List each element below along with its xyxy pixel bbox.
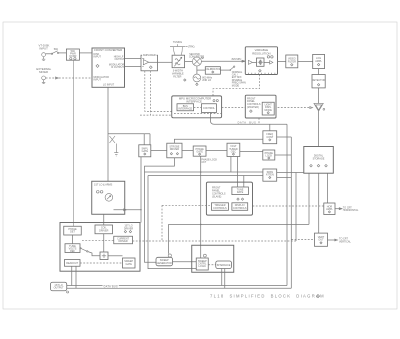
- svg-text:FILTER: FILTER: [173, 76, 181, 79]
- DIGITAL STORAGE box: [304, 147, 334, 174]
- dashed wire front panel to vert amp: [278, 107, 313, 109]
- FIRST CONVERTER U1: [92, 48, 125, 87]
- dashed wire var res bottom to interface: [213, 75, 260, 96]
- VARIABLE RESOLUTION box: [245, 47, 277, 75]
- vertical amp triangle U2: [314, 103, 325, 111]
- mixer M1: [192, 57, 203, 66]
- wire divider down to 1st LO driver: [73, 60, 75, 226]
- wire D to phase lock box F: [240, 151, 263, 153]
- wire osc D bottom to line y172: [230, 157, 232, 173]
- label cal mode list: [232, 71, 246, 88]
- svg-text:INTERFACE: INTERFACE: [217, 264, 231, 267]
- dashed wire display controls to horiz ampl: [253, 205, 324, 207]
- sweep gate box: [123, 258, 136, 268]
- svg-text:TUNING: TUNING: [173, 41, 182, 44]
- wire mixer to variable resolution, 829 MHz: [201, 58, 245, 62]
- svg-text:INPUT: INPUT: [94, 56, 102, 59]
- wire calibrator to cal switch: [220, 66, 235, 71]
- dashed wire to trigger controls: [162, 204, 212, 206]
- svg-text:50Ω: 50Ω: [54, 48, 59, 51]
- switch S1 50 ohm: [46, 48, 67, 54]
- wire filter to mixer: [185, 61, 193, 63]
- svg-text:RATE: RATE: [237, 191, 244, 194]
- phase det box: [64, 226, 82, 235]
- svg-text:LO INPUT: LO INPUT: [103, 84, 115, 87]
- wire phase det to tune volts: [72, 235, 74, 244]
- connector J1 VT-DISK INPUT: [39, 43, 50, 60]
- tuning control symbol: [170, 41, 195, 55]
- wire line y175.5 to tune rate: [243, 176, 245, 188]
- wire coil driver to summing: [103, 234, 105, 252]
- svg-text:CONTROL: CONTROL: [203, 107, 216, 110]
- sweep control outer box: [192, 245, 234, 272]
- svg-text:VERTICAL: VERTICAL: [339, 241, 352, 244]
- span atten box G: [263, 169, 277, 181]
- filter FL1 3-width: [172, 55, 186, 81]
- svg-text:CALIBRATOR: CALIBRATOR: [205, 68, 221, 71]
- bus vertical V1: [286, 124, 288, 285]
- arrow to CRT vertical: [328, 238, 352, 244]
- svg-text:DETECTOR: DETECTOR: [312, 79, 326, 82]
- dashed wire bus to vert out: [291, 239, 314, 241]
- DATA BUS wire from interface: [211, 113, 288, 125]
- svg-text:829 MHz: 829 MHz: [232, 58, 243, 61]
- wire box F right to bus vertical: [275, 154, 292, 156]
- svg-text:INTERFACE: INTERFACE: [178, 108, 192, 111]
- log ampl box: [313, 54, 325, 68]
- svg-text:MODE: MODE: [232, 84, 240, 87]
- oscillator 2nd LO: [193, 74, 213, 86]
- wire bus stub to box E top: [269, 124, 271, 131]
- data bus bottom line lower: [67, 287, 292, 289]
- svg-text:7L18 SIMPLIFIED BLOCK DIAGR: 7L18 SIMPLIFIED BLOCK DIAGRAM: [210, 294, 325, 299]
- wire amplifier to filter: [158, 61, 173, 63]
- svg-text:DATA BUS: DATA BUS: [104, 285, 118, 288]
- svg-text:MODE: MODE: [265, 109, 273, 112]
- vert out box: [315, 233, 328, 246]
- coupler X on LO line: [108, 134, 150, 156]
- FRONT PANEL CONTROLS (SLAVE) box: [206, 182, 252, 215]
- readout box: [65, 260, 81, 267]
- wire digital storage to horiz ampl: [327, 173, 329, 203]
- dashed wire x162 vertical: [161, 205, 163, 241]
- svg-text:REF: REF: [70, 250, 75, 253]
- svg-text:(TRK): (TRK): [188, 45, 195, 48]
- wire row C-D: [206, 150, 227, 152]
- sampling gate box A: [139, 145, 151, 157]
- bus vertical V2: [290, 137, 292, 288]
- wire strobe B bottom L-path down: [145, 158, 175, 262]
- wire box G right to digital storage: [277, 172, 304, 174]
- wire row B-C: [182, 150, 193, 152]
- wire sweep gen to sweep logic: [173, 261, 197, 263]
- dashed wire interface to front panel master: [222, 107, 246, 109]
- FRONT PANEL CONTROLS (MASTER) box: [245, 95, 276, 118]
- svg-text:DATA BUS: DATA BUS: [238, 121, 257, 124]
- wire mixer down to 2nd LO osc: [196, 66, 198, 74]
- phase lock box F: [263, 150, 275, 160]
- volt tuned osc box D: [227, 143, 240, 156]
- AMPLIFIER box: [141, 54, 158, 71]
- svg-text:CONT: CONT: [266, 136, 273, 139]
- svg-text:DET: DET: [70, 231, 75, 234]
- 1st LO output connector box: [51, 282, 69, 293]
- svg-text:GATE: GATE: [125, 263, 132, 266]
- video filter box: [286, 55, 298, 68]
- 1ST LO AND ARMS box: [92, 181, 125, 214]
- wire box G right to bus vertical: [277, 177, 292, 179]
- phase gate box C: [193, 146, 206, 156]
- data bus bottom line upper: [67, 285, 287, 287]
- arrow to CRT horizontal: [335, 206, 359, 212]
- wire arms box to sweep vertical: [114, 209, 142, 211]
- svg-text:IF OUTPUT: IF OUTPUT: [111, 66, 124, 69]
- svg-text:AMPL: AMPL: [326, 208, 333, 211]
- wire vert amp to digital storage: [318, 111, 320, 146]
- svg-text:AMPL: AMPL: [315, 60, 322, 63]
- detector box: [312, 75, 326, 88]
- svg-text:CKT: CKT: [201, 161, 206, 164]
- coil driver box: [95, 225, 113, 234]
- wire horiz line y175.5: [148, 176, 263, 269]
- wire LO input down: [107, 87, 109, 181]
- wire phase gate C down to sweep logic: [200, 156, 202, 258]
- freq count box E: [263, 131, 277, 144]
- dashed wire ext mixer to converter: [46, 77, 92, 79]
- svg-text:2ND LO: 2ND LO: [202, 79, 211, 82]
- dashed wire master to data bus: [258, 118, 260, 124]
- svg-text:OUTPUT: OUTPUT: [54, 287, 65, 290]
- wire video filter to log ampl: [298, 61, 313, 63]
- wire var res to video filter: [278, 61, 286, 63]
- dashed wire amplifier to interface (2): [140, 71, 172, 115]
- switch tune volts to summing: [80, 248, 100, 256]
- svg-text:LOGIC: LOGIC: [198, 265, 206, 268]
- data bus bottom label: [103, 285, 120, 288]
- svg-text:1ST LO & ARMS: 1ST LO & ARMS: [94, 183, 113, 186]
- dashed wire logic to interface: [208, 264, 216, 266]
- svg-text:FILTER: FILTER: [288, 60, 296, 63]
- bus vertical V3: [295, 173, 297, 242]
- wire log ampl to detector: [318, 69, 320, 75]
- svg-text:DRIVER: DRIVER: [99, 229, 108, 232]
- current driver box: [114, 236, 133, 244]
- caption 7L18 simplified block diagram: [210, 294, 325, 299]
- wire detector to vert amp triangle: [318, 88, 320, 104]
- svg-text:INPUT: INPUT: [94, 79, 102, 82]
- MICROCOMPUTER INTERFACE box: [172, 96, 222, 118]
- wire osc D bottom to tune rate: [236, 157, 238, 188]
- svg-text:RESOLUTION: RESOLUTION: [252, 51, 270, 55]
- wire arms box down to coil driver: [103, 214, 105, 225]
- wire converter to amplifier (lower): [125, 66, 142, 68]
- sweep generator box: [156, 254, 173, 266]
- summing box: [100, 252, 108, 260]
- svg-text:DRIVER: DRIVER: [118, 240, 127, 243]
- svg-text:MIXER: MIXER: [39, 70, 48, 74]
- wire digital storage to horiz line: [308, 173, 310, 224]
- dashed wire tune volts to current driver: [82, 239, 114, 241]
- dashed wire readout to sweep gate: [80, 262, 123, 264]
- wire sampling gate down to driver box: [140, 157, 142, 223]
- svg-text:DRIVER: DRIVER: [170, 148, 179, 151]
- strobe driver box B: [167, 143, 182, 158]
- svg-text:GATE: GATE: [142, 150, 149, 153]
- 1ST LO DRIVER box: [60, 223, 140, 272]
- svg-text:OUTPUT: OUTPUT: [114, 58, 125, 61]
- wires readout down to data bus: [71, 266, 73, 285]
- wire digital storage to vert out: [318, 173, 320, 233]
- svg-text:STORAGE: STORAGE: [313, 158, 325, 161]
- svg-text:INTERFACE: INTERFACE: [186, 99, 202, 103]
- svg-text:DRIVER: DRIVER: [124, 227, 133, 230]
- svg-text:CONTROLS: CONTROLS: [213, 207, 227, 210]
- wire B top to freq count box E: [174, 139, 263, 143]
- wire converter to amplifier (upper): [125, 58, 142, 60]
- calibrator box: [205, 67, 221, 75]
- wire horiz line y172 to digital storage: [145, 171, 263, 173]
- wire divider to converter: [79, 52, 92, 54]
- horizontal sweep line y224.4: [169, 224, 310, 253]
- horiz ampl box: [324, 203, 335, 215]
- wire summing to sweep gate: [108, 255, 123, 257]
- dashed wire amplifier to interface (1): [145, 71, 172, 112]
- wire row A-B: [151, 150, 167, 152]
- tune volts box: [65, 244, 80, 253]
- svg-text:HORIZONTAL: HORIZONTAL: [343, 209, 359, 212]
- svg-text:FRONT CONVERTER: FRONT CONVERTER: [94, 48, 122, 52]
- sweep logic box: [196, 254, 208, 270]
- svg-text:INPUT: INPUT: [39, 47, 48, 51]
- junction dots: [200, 171, 202, 173]
- interface box rounded: [216, 261, 232, 269]
- connector J2 EXTERNAL MIXER: [36, 67, 51, 84]
- dashed wire current driver to right: [133, 240, 297, 242]
- svg-text:GENERATOR: GENERATOR: [157, 262, 172, 265]
- svg-text:(MASTER): (MASTER): [247, 106, 259, 109]
- svg-text:CONTROLS: CONTROLS: [233, 207, 247, 210]
- wire osc junction to calibrator: [197, 69, 205, 71]
- svg-text:(SLAVE): (SLAVE): [212, 195, 221, 198]
- svg-text:OUT: OUT: [318, 239, 324, 242]
- power divider box: [66, 49, 79, 60]
- svg-text:ATTEN: ATTEN: [266, 173, 274, 176]
- svg-text:READOUT: READOUT: [66, 262, 78, 265]
- wires interface down to data bus: [221, 269, 223, 286]
- svg-text:AMPLIFIER: AMPLIFIER: [143, 54, 156, 57]
- wire box E right to bus vertical: [277, 136, 292, 138]
